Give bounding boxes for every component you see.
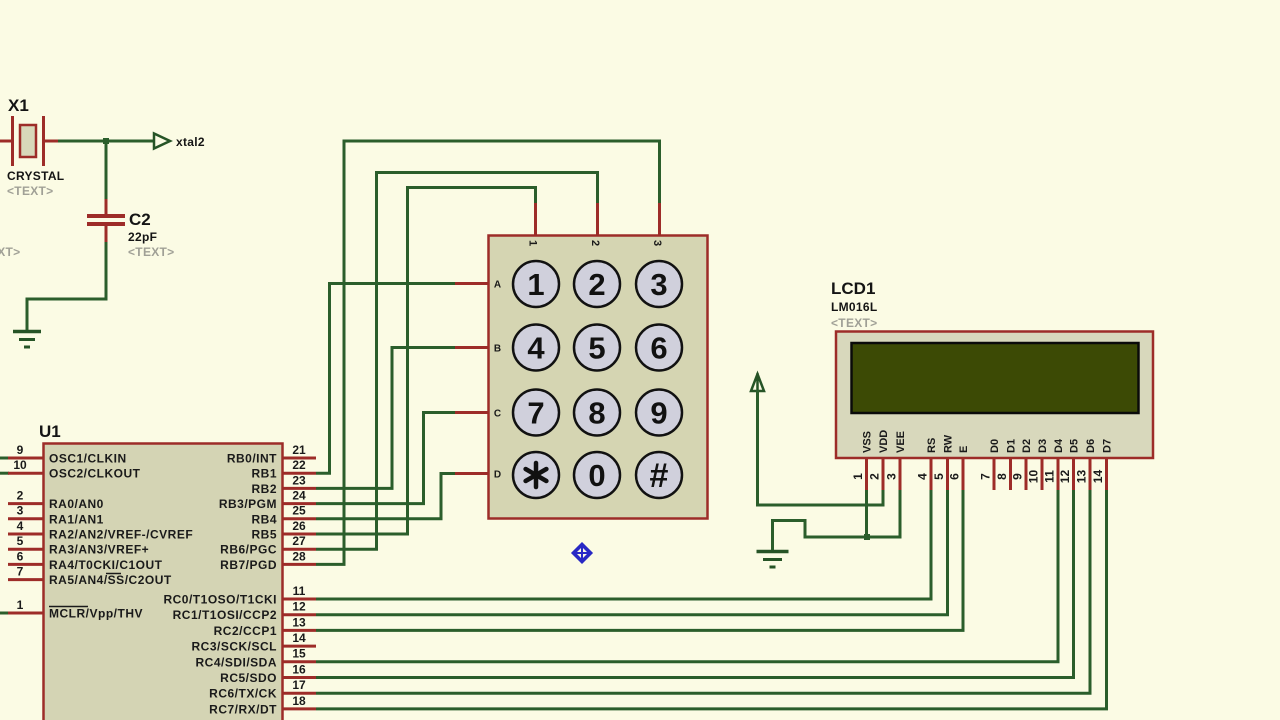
- terminal xtal2 arrow: [154, 134, 170, 149]
- chip pin label RA5/AN4/SS/C2OUT: [49, 573, 172, 587]
- wire power to LCD VDD: [758, 390, 884, 505]
- pin 22 RB1: [283, 458, 316, 473]
- svg-text:14: 14: [292, 631, 306, 645]
- pin 11 RC0: [283, 584, 316, 599]
- wire OSC1 left: [0, 457, 9, 460]
- node junction on xtal wire: [103, 138, 109, 144]
- wire RB2 to keypad row B: [316, 348, 456, 489]
- keypad button 1: [513, 261, 559, 307]
- svg-text:RA5/AN4/SS/C2OUT: RA5/AN4/SS/C2OUT: [49, 573, 172, 587]
- svg-text:22: 22: [292, 458, 306, 472]
- LCD pin 11: [1043, 458, 1059, 490]
- keypad button 8: [574, 390, 620, 436]
- wire RB6 to keypad col 2: [316, 173, 598, 550]
- keypad button 6: [636, 325, 682, 371]
- svg-text:RA3/AN3/VREF+: RA3/AN3/VREF+: [49, 543, 149, 557]
- power symbol arrow: [751, 373, 764, 391]
- pin 17 RC6: [283, 678, 316, 693]
- LCD screen: [852, 343, 1139, 413]
- svg-text:9: 9: [650, 396, 667, 431]
- LCD pin 13: [1075, 458, 1091, 490]
- svg-text:U1: U1: [39, 422, 61, 441]
- LCD body: [836, 332, 1153, 459]
- svg-text:5: 5: [588, 331, 605, 366]
- svg-text:27: 27: [292, 534, 306, 548]
- svg-text:12: 12: [1058, 470, 1072, 484]
- svg-text:RB6/PGC: RB6/PGC: [220, 543, 277, 557]
- svg-text:OSC2/CLKOUT: OSC2/CLKOUT: [49, 467, 141, 481]
- keypad button 2: [574, 261, 620, 307]
- svg-text:25: 25: [292, 504, 306, 518]
- svg-text:28: 28: [292, 549, 306, 563]
- svg-text:6: 6: [948, 473, 962, 480]
- svg-text:A: A: [494, 280, 501, 291]
- keypad pin col 2: [596, 203, 599, 236]
- ground symbol crystal: [13, 332, 41, 348]
- svg-text:RB0/INT: RB0/INT: [227, 452, 277, 466]
- pin 5 RA3: [8, 534, 43, 549]
- svg-text:OSC1/CLKIN: OSC1/CLKIN: [49, 452, 127, 466]
- keypad body: [489, 236, 708, 519]
- svg-text:5: 5: [932, 473, 946, 480]
- svg-text:9: 9: [17, 443, 24, 457]
- pin 23 RB2: [283, 473, 316, 488]
- svg-text:RA2/AN2/VREF-/CVREF: RA2/AN2/VREF-/CVREF: [49, 528, 193, 542]
- svg-text:10: 10: [1027, 470, 1041, 484]
- svg-text:10: 10: [13, 458, 27, 472]
- keypad button 9: [636, 390, 682, 436]
- LCD pin 9: [1011, 458, 1027, 490]
- capacitor C2: [87, 199, 125, 243]
- svg-text:RC6/TX/CK: RC6/TX/CK: [209, 687, 277, 701]
- keypad button hash: [636, 452, 682, 498]
- wire RC0 to LCD RS: [316, 489, 931, 599]
- LCD pin 8: [995, 458, 1011, 490]
- svg-text:2: 2: [589, 240, 601, 246]
- wire C2 to ground: [27, 242, 106, 331]
- keypad button 7: [513, 390, 559, 436]
- svg-text:RA0/AN0: RA0/AN0: [49, 497, 104, 511]
- svg-text:18: 18: [292, 694, 306, 708]
- wire RB1 to keypad row A: [316, 284, 456, 474]
- wire junction to C2: [105, 141, 108, 200]
- LCD pin 2: [868, 458, 884, 490]
- svg-text:2: 2: [17, 489, 24, 503]
- LCD pin 12: [1058, 458, 1074, 490]
- pin 18 RC7: [283, 694, 316, 709]
- wire OSC2 left: [0, 472, 9, 475]
- wire RB3 to keypad row C: [316, 413, 456, 504]
- keypad button 3: [636, 261, 682, 307]
- svg-text:24: 24: [292, 489, 306, 503]
- keypad button 5: [574, 325, 620, 371]
- svg-text:CRYSTAL: CRYSTAL: [7, 169, 64, 183]
- svg-text:21: 21: [292, 443, 306, 457]
- svg-text:RB2: RB2: [251, 482, 277, 496]
- svg-text:<TEXT>: <TEXT>: [831, 316, 877, 330]
- svg-text:RB7/PGD: RB7/PGD: [220, 558, 277, 572]
- pin 12 RC1: [283, 600, 316, 615]
- svg-text:RC7/RX/DT: RC7/RX/DT: [209, 702, 277, 716]
- svg-text:VEE: VEE: [895, 431, 907, 453]
- pin 2 RA0: [8, 489, 43, 504]
- wire RC7 to LCD D7: [316, 489, 1107, 709]
- svg-text:B: B: [494, 344, 501, 355]
- svg-text:D7: D7: [1102, 439, 1114, 453]
- pin 9 OSC1: [8, 443, 43, 458]
- svg-text:D3: D3: [1037, 439, 1049, 453]
- svg-text:D1: D1: [1006, 439, 1018, 453]
- keypad button 4: [513, 325, 559, 371]
- svg-text:26: 26: [292, 519, 306, 533]
- keypad pin row D: [455, 472, 489, 475]
- wire crystal to terminal: [58, 140, 154, 143]
- svg-text:MCLR/Vpp/THV: MCLR/Vpp/THV: [49, 607, 143, 621]
- LCD pin 5: [932, 458, 948, 490]
- svg-text:16: 16: [292, 662, 306, 676]
- svg-text:E: E: [958, 446, 970, 453]
- node junction VSS ground: [864, 534, 870, 540]
- svg-text:RC1/T1OSI/CCP2: RC1/T1OSI/CCP2: [173, 608, 277, 622]
- keypad pin row C: [455, 411, 489, 414]
- pin 10 OSC2: [8, 458, 43, 473]
- svg-text:D: D: [494, 470, 501, 481]
- svg-text:15: 15: [292, 647, 306, 661]
- svg-text:11: 11: [1043, 470, 1057, 483]
- svg-text:D6: D6: [1085, 439, 1097, 453]
- svg-text:RB3/PGM: RB3/PGM: [219, 497, 277, 511]
- svg-text:6: 6: [650, 331, 667, 366]
- keypad button 0: [574, 452, 620, 498]
- pin 4 RA2: [8, 519, 43, 534]
- svg-text:13: 13: [292, 615, 306, 629]
- pin 3 RA1: [8, 504, 43, 519]
- pin 26 RB5: [283, 519, 316, 534]
- svg-text:5: 5: [17, 534, 24, 548]
- LCD pin 1: [851, 458, 867, 490]
- svg-text:<TEXT>: <TEXT>: [0, 245, 20, 259]
- LCD pin 10: [1027, 458, 1043, 490]
- pin 7 RA5: [8, 565, 43, 580]
- svg-text:3: 3: [650, 267, 667, 302]
- svg-text:C: C: [494, 409, 501, 420]
- svg-text:D2: D2: [1021, 439, 1033, 453]
- svg-text:X1: X1: [8, 96, 29, 115]
- wire RC2 to LCD E: [316, 489, 963, 630]
- svg-text:3: 3: [17, 504, 24, 518]
- keypad button star: [513, 452, 559, 498]
- svg-text:RC5/SDO: RC5/SDO: [220, 671, 277, 685]
- svg-text:3: 3: [885, 473, 899, 480]
- svg-text:7: 7: [527, 396, 544, 431]
- svg-text:23: 23: [292, 473, 306, 487]
- pin 15 RC4: [283, 647, 316, 662]
- svg-text:3: 3: [651, 240, 663, 246]
- svg-text:7: 7: [979, 473, 993, 480]
- wire RB7 to keypad col 3: [316, 141, 660, 564]
- svg-text:LCD1: LCD1: [831, 279, 875, 298]
- svg-text:4: 4: [17, 519, 24, 533]
- wire RC5 to LCD D5: [316, 489, 1074, 678]
- wire RC6 to LCD D6: [316, 489, 1090, 693]
- crystal X1: [0, 116, 58, 166]
- wire RC4 to LCD D4: [316, 489, 1058, 662]
- svg-text:xtal2: xtal2: [176, 135, 205, 149]
- chip pin label MCLR/Vpp/THV with overline: [49, 607, 143, 621]
- svg-text:4: 4: [527, 331, 545, 366]
- svg-text:2: 2: [588, 267, 605, 302]
- svg-text:RS: RS: [926, 438, 938, 453]
- svg-text:<TEXT>: <TEXT>: [7, 184, 53, 198]
- svg-text:RC4/SDI/SDA: RC4/SDI/SDA: [195, 655, 277, 669]
- svg-text:<TEXT>: <TEXT>: [128, 245, 174, 259]
- LCD pin 3: [885, 458, 901, 490]
- svg-text:8: 8: [995, 473, 1009, 480]
- LCD pin 7: [979, 458, 995, 490]
- svg-text:8: 8: [588, 396, 605, 431]
- keypad pin col 1: [534, 203, 537, 236]
- svg-text:1: 1: [17, 598, 24, 612]
- svg-text:RC3/SCK/SCL: RC3/SCK/SCL: [191, 640, 277, 654]
- svg-text:LM016L: LM016L: [831, 300, 877, 314]
- pin 24 RB3: [283, 489, 316, 504]
- LCD pin 14: [1091, 458, 1107, 490]
- LCD pin 6: [948, 458, 964, 490]
- svg-text:1: 1: [527, 240, 539, 246]
- svg-text:#: #: [650, 457, 669, 495]
- pin 25 RB4: [283, 504, 316, 519]
- svg-text:11: 11: [293, 584, 306, 598]
- svg-text:RB5: RB5: [251, 528, 277, 542]
- svg-text:14: 14: [1091, 470, 1105, 484]
- svg-text:2: 2: [868, 473, 882, 480]
- svg-text:22pF: 22pF: [128, 230, 157, 244]
- svg-text:RC0/T1OSO/T1CKI: RC0/T1OSO/T1CKI: [163, 593, 277, 607]
- svg-text:RW: RW: [943, 434, 955, 453]
- keypad pin row A: [455, 282, 489, 285]
- chip U1 body: [44, 444, 283, 720]
- ground symbol LCD: [757, 552, 789, 568]
- pin 21 RB0: [283, 443, 316, 458]
- svg-text:1: 1: [851, 473, 865, 480]
- svg-text:12: 12: [292, 600, 306, 614]
- svg-text:RA4/T0CKI/C1OUT: RA4/T0CKI/C1OUT: [49, 558, 163, 572]
- svg-text:D4: D4: [1053, 438, 1065, 453]
- svg-text:1: 1: [527, 267, 544, 302]
- keypad pin row B: [455, 346, 489, 349]
- pin 27 RB6: [283, 534, 316, 549]
- svg-text:RA1/AN1: RA1/AN1: [49, 512, 104, 526]
- svg-text:VDD: VDD: [878, 430, 890, 453]
- svg-text:C2: C2: [129, 210, 151, 229]
- svg-text:17: 17: [292, 678, 306, 692]
- svg-text:7: 7: [17, 565, 24, 579]
- keypad pin col 3: [658, 203, 661, 236]
- svg-text:4: 4: [916, 473, 930, 480]
- svg-text:0: 0: [588, 458, 605, 493]
- svg-text:D5: D5: [1069, 439, 1081, 453]
- svg-text:9: 9: [1011, 473, 1025, 480]
- svg-text:6: 6: [17, 549, 24, 563]
- node origin marker blue: [574, 545, 591, 562]
- pin 1 MCLR: [8, 598, 43, 613]
- wire LCD VSS VEE to ground: [773, 489, 901, 551]
- pin 13 RC2: [283, 615, 316, 630]
- pin 14 RC3: [283, 631, 316, 646]
- pin 6 RA4: [8, 549, 43, 564]
- LCD pin 4: [916, 458, 932, 490]
- svg-text:RB4: RB4: [251, 512, 277, 526]
- svg-text:RB1: RB1: [251, 467, 277, 481]
- svg-text:RC2/CCP1: RC2/CCP1: [214, 624, 277, 638]
- pin 16 RC5: [283, 662, 316, 677]
- svg-text:13: 13: [1075, 470, 1089, 484]
- wire RB4 to keypad row D: [316, 474, 456, 519]
- wire MCLR left: [0, 612, 9, 615]
- wire RC1 to LCD RW: [316, 489, 948, 615]
- pin 28 RB7: [283, 549, 316, 564]
- wire RB5 to keypad col 1: [316, 188, 536, 535]
- svg-text:VSS: VSS: [862, 431, 874, 453]
- svg-text:D0: D0: [989, 439, 1001, 453]
